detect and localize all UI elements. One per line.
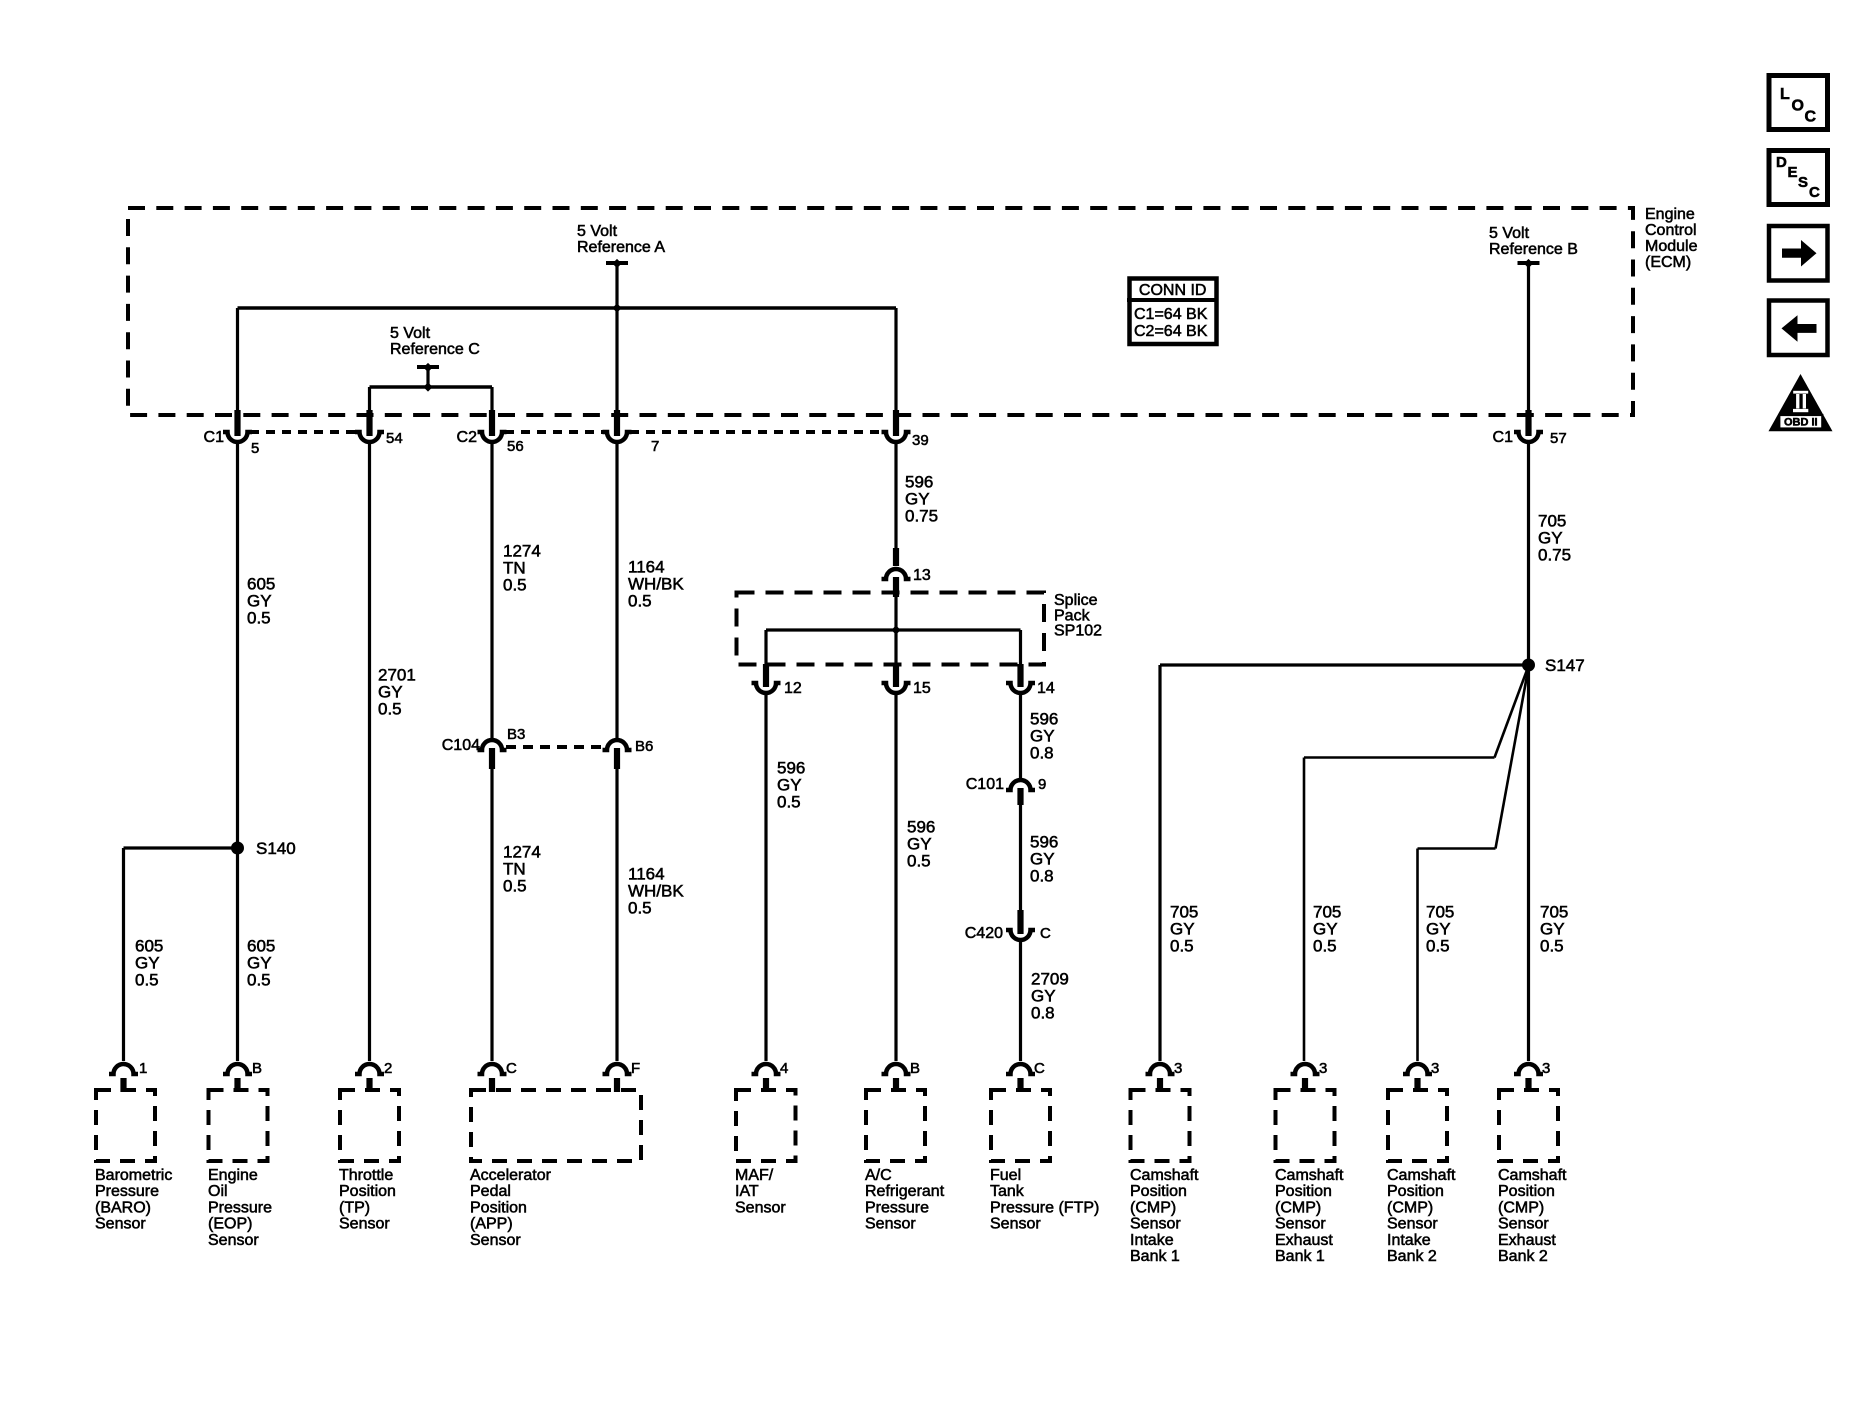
svg-text:B: B	[910, 1060, 920, 1077]
svg-text:Camshaft: Camshaft	[1498, 1167, 1567, 1184]
svg-text:0.5: 0.5	[135, 971, 159, 990]
sensor connector pin 3 at x=1417.5	[1403, 1064, 1432, 1092]
svg-text:54: 54	[386, 430, 403, 447]
wire 2701 GY from pin 54 down to TP	[368, 443, 371, 1061]
svg-text:4: 4	[780, 1060, 788, 1077]
icon DESC button	[1769, 151, 1828, 205]
svg-text:C2=64 BK: C2=64 BK	[1134, 323, 1208, 340]
svg-text:Bank 2: Bank 2	[1498, 1248, 1548, 1265]
svg-text:Pedal: Pedal	[470, 1183, 511, 1200]
svg-text:0.5: 0.5	[777, 793, 801, 812]
svg-text:0.5: 0.5	[247, 609, 271, 628]
svg-text:Engine: Engine	[208, 1167, 258, 1184]
svg-text:S: S	[1798, 174, 1808, 191]
svg-text:3: 3	[1174, 1060, 1182, 1077]
svg-text:C2: C2	[457, 429, 478, 446]
splice bus right drop	[1019, 630, 1022, 666]
svg-text:Position: Position	[339, 1183, 396, 1200]
svg-text:E: E	[1788, 164, 1798, 181]
svg-text:Tank: Tank	[990, 1183, 1025, 1200]
wire S140 branch horizontal	[124, 846, 238, 849]
svg-text:0.5: 0.5	[628, 899, 652, 918]
svg-text:Sensor: Sensor	[1387, 1216, 1438, 1233]
svg-text:0.5: 0.5	[503, 576, 527, 595]
inline connector C101 pin 9	[1006, 780, 1035, 805]
harness dotted line pins 56-7	[505, 430, 604, 434]
sensor connector pin B at x=896	[882, 1064, 911, 1092]
svg-text:B6: B6	[635, 738, 653, 755]
svg-text:Sensor: Sensor	[470, 1232, 521, 1249]
splice bus left drop	[764, 630, 767, 666]
svg-text:Intake: Intake	[1130, 1232, 1174, 1249]
svg-text:B3: B3	[507, 726, 525, 743]
sensor box Camshaft Position (CMP) Sensor Exhaust Bank 2	[1499, 1090, 1558, 1161]
wire bus-A left drop to pin 5	[236, 308, 239, 413]
svg-text:Sensor: Sensor	[95, 1216, 146, 1233]
sensor box Camshaft Position (CMP) Sensor Intake Bank 2	[1388, 1090, 1447, 1161]
svg-text:Exhaust: Exhaust	[1498, 1232, 1556, 1249]
ECM dashed enclosure box	[128, 208, 1633, 415]
svg-text:F: F	[631, 1060, 640, 1077]
svg-text:Pressure: Pressure	[95, 1183, 159, 1200]
svg-text:Position: Position	[1275, 1183, 1332, 1200]
svg-text:0.8: 0.8	[1030, 744, 1054, 763]
svg-text:C: C	[506, 1060, 517, 1077]
sensor connector pin 4 at x=766	[752, 1064, 781, 1092]
junction at splice bus	[891, 625, 900, 634]
svg-text:Reference C: Reference C	[390, 341, 480, 358]
svg-text:3: 3	[1431, 1060, 1439, 1077]
svg-text:C1: C1	[204, 429, 225, 446]
5V reference A supply symbol	[606, 259, 628, 268]
sensor box Camshaft Position (CMP) Sensor Intake Bank 1	[1131, 1090, 1190, 1161]
harness dotted line pins 5-54	[250, 430, 357, 434]
wire bus-C left drop to pin 54	[368, 387, 371, 413]
wire 1274 TN from pin 56 to C104	[490, 443, 493, 738]
svg-text:IAT: IAT	[735, 1183, 759, 1200]
ECM connector pin 56	[478, 410, 507, 442]
svg-text:A/C: A/C	[865, 1167, 892, 1184]
ECM connector pin 5	[223, 410, 252, 442]
svg-text:(BARO): (BARO)	[95, 1199, 151, 1216]
svg-text:Control: Control	[1645, 222, 1697, 239]
svg-text:0.5: 0.5	[1170, 937, 1194, 956]
wire 596 GY from pin 39 to splice pack	[894, 443, 897, 549]
sensor box A C Refrigerant Pressure Sensor	[866, 1090, 925, 1161]
svg-text:SP102: SP102	[1054, 623, 1102, 640]
svg-text:12: 12	[784, 680, 802, 697]
wire 705 GY from pin 57 down to CMP exhaust bank 2	[1527, 443, 1530, 1061]
svg-text:Reference B: Reference B	[1489, 241, 1578, 258]
svg-text:(CMP): (CMP)	[1498, 1199, 1544, 1216]
svg-text:OBD II: OBD II	[1784, 417, 1818, 429]
wire S147 branch to CMP intake bank 1	[1160, 663, 1529, 666]
svg-text:CONN ID: CONN ID	[1139, 282, 1207, 299]
wire 596 GY pin14 to C101	[1019, 694, 1022, 778]
svg-text:0.5: 0.5	[1426, 937, 1450, 956]
sensor box Fuel Tank Pressure (FTP) Sensor	[991, 1090, 1050, 1161]
svg-text:Sensor: Sensor	[339, 1216, 390, 1233]
wire 596 GY C101 to C420	[1019, 805, 1022, 910]
svg-text:1: 1	[139, 1060, 147, 1077]
svg-text:0.5: 0.5	[1313, 937, 1337, 956]
sensor connector pin 3 at x=1305	[1291, 1064, 1320, 1092]
svg-text:Bank 1: Bank 1	[1130, 1248, 1180, 1265]
wire pin13 into splice bus	[894, 597, 897, 630]
svg-text:Accelerator: Accelerator	[470, 1167, 552, 1184]
svg-text:Pressure (FTP): Pressure (FTP)	[990, 1199, 1099, 1216]
svg-text:0.75: 0.75	[905, 507, 938, 526]
ECM connector pin 57	[1514, 410, 1543, 442]
svg-text:Sensor: Sensor	[865, 1216, 916, 1233]
svg-text:39: 39	[912, 432, 929, 449]
icon OBD II symbol	[1769, 374, 1833, 431]
svg-text:0.8: 0.8	[1031, 1004, 1055, 1023]
sensor connector pin 2 at x=369.5	[355, 1064, 384, 1092]
svg-text:Sensor: Sensor	[735, 1199, 786, 1216]
svg-text:L: L	[1780, 86, 1790, 103]
5V reference B supply symbol	[1518, 259, 1540, 268]
splice pack connector pin 15	[882, 664, 911, 693]
sensor connector pin 3 at x=1528.5	[1514, 1064, 1543, 1092]
splice bus horizontal	[766, 628, 1021, 631]
svg-text:C: C	[1034, 1060, 1045, 1077]
svg-text:Refrigerant: Refrigerant	[865, 1183, 945, 1200]
wire 5V-B vertical	[1527, 263, 1530, 413]
ECM connector pin 54	[355, 410, 384, 442]
svg-text:C: C	[1040, 925, 1051, 942]
svg-text:Reference A: Reference A	[577, 239, 665, 256]
svg-text:B: B	[252, 1060, 262, 1077]
svg-text:C: C	[1805, 109, 1817, 126]
svg-text:Camshaft: Camshaft	[1275, 1167, 1344, 1184]
sensor connector pin B at x=237.5	[223, 1064, 252, 1092]
svg-text:(CMP): (CMP)	[1387, 1199, 1433, 1216]
splice pack SP102 dashed box	[737, 593, 1045, 665]
svg-text:0.5: 0.5	[1540, 937, 1564, 956]
svg-text:Sensor: Sensor	[1130, 1216, 1181, 1233]
svg-text:Pressure: Pressure	[865, 1199, 929, 1216]
svg-text:S147: S147	[1545, 656, 1585, 675]
svg-text:14: 14	[1037, 680, 1055, 697]
svg-text:0.8: 0.8	[1030, 867, 1054, 886]
sensor box MAF IAT Sensor	[736, 1090, 796, 1161]
svg-text:3: 3	[1542, 1060, 1550, 1077]
svg-text:Intake: Intake	[1387, 1232, 1431, 1249]
ECM connector pin 39	[882, 410, 911, 442]
svg-text:5 Volt: 5 Volt	[577, 223, 618, 240]
5V reference C supply symbol	[417, 363, 439, 372]
svg-text:2: 2	[384, 1060, 392, 1077]
inline connector pin B6	[603, 740, 632, 769]
wire 605 GY down to BARO	[122, 848, 125, 1061]
svg-text:C1=64 BK: C1=64 BK	[1134, 306, 1208, 323]
svg-text:Sensor: Sensor	[208, 1232, 259, 1249]
sensor connector pin 3 at x=1160	[1146, 1064, 1175, 1092]
svg-text:0.5: 0.5	[503, 877, 527, 896]
svg-text:0.5: 0.5	[247, 971, 271, 990]
svg-text:Sensor: Sensor	[1498, 1216, 1549, 1233]
svg-text:Throttle: Throttle	[339, 1167, 393, 1184]
svg-text:Module: Module	[1645, 238, 1698, 255]
svg-text:13: 13	[913, 567, 931, 584]
wire 15 drop	[894, 630, 897, 666]
sensor box Throttle Position (TP) Sensor	[340, 1090, 399, 1161]
wire 1164 WH/BK from pin 7 to B6	[615, 443, 618, 738]
wire 605 GY from pin 5 down to EOP	[236, 443, 239, 1061]
svg-text:Position: Position	[1498, 1183, 1555, 1200]
harness dashed line B3-B6	[506, 745, 603, 749]
svg-text:Sensor: Sensor	[1275, 1216, 1326, 1233]
splice S140	[231, 842, 244, 855]
svg-text:7: 7	[651, 438, 659, 455]
svg-text:Position: Position	[470, 1199, 527, 1216]
svg-text:Oil: Oil	[208, 1183, 228, 1200]
5V-A bus horizontal	[238, 306, 897, 309]
junction 5V-A at bus	[612, 303, 621, 312]
wire 596 GY to A/C sensor	[894, 694, 897, 1061]
svg-text:C104: C104	[442, 737, 480, 754]
svg-text:0.5: 0.5	[628, 592, 652, 611]
5V-C bus horizontal	[370, 385, 493, 388]
svg-text:(APP): (APP)	[470, 1216, 513, 1233]
splice S147	[1522, 659, 1535, 672]
wire 5V-A vertical	[615, 263, 618, 413]
wire 1164 WH/BK from B6 down to APP F	[615, 769, 618, 1061]
svg-text:Camshaft: Camshaft	[1387, 1167, 1456, 1184]
svg-text:(EOP): (EOP)	[208, 1216, 252, 1233]
svg-text:Fuel: Fuel	[990, 1167, 1021, 1184]
svg-text:0.5: 0.5	[378, 700, 402, 719]
svg-text:Bank 1: Bank 1	[1275, 1248, 1325, 1265]
icon LOC button	[1769, 76, 1828, 130]
inline connector C420 pin C	[1006, 910, 1035, 940]
wire 5V-C vertical	[426, 367, 429, 387]
svg-text:C: C	[1809, 184, 1820, 201]
sensor connector pin C at x=1020.5	[1006, 1064, 1035, 1092]
wire bus-C right drop to pin 56	[490, 387, 493, 413]
svg-text:0.75: 0.75	[1538, 546, 1571, 565]
svg-text:15: 15	[913, 680, 931, 697]
wire S147 diagonal branch to CMP exhaust bank 1	[1495, 670, 1528, 758]
sensor connector pin 1 at x=123.5	[109, 1064, 138, 1092]
svg-text:(ECM): (ECM)	[1645, 254, 1691, 271]
svg-text:Sensor: Sensor	[990, 1216, 1041, 1233]
junction 5V-C at bus	[423, 382, 432, 391]
ECM connector pin 7	[603, 410, 632, 442]
svg-text:Position: Position	[1130, 1183, 1187, 1200]
svg-text:Bank 2: Bank 2	[1387, 1248, 1437, 1265]
svg-text:C420: C420	[965, 925, 1003, 942]
icon prev-page arrow button	[1769, 301, 1828, 356]
svg-text:3: 3	[1319, 1060, 1327, 1077]
svg-text:57: 57	[1550, 430, 1567, 447]
svg-text:9: 9	[1038, 776, 1046, 793]
svg-text:(CMP): (CMP)	[1130, 1199, 1176, 1216]
svg-text:Camshaft: Camshaft	[1130, 1167, 1199, 1184]
svg-text:5: 5	[251, 440, 259, 457]
svg-text:Barometric: Barometric	[95, 1167, 172, 1184]
svg-text:C101: C101	[966, 776, 1004, 793]
svg-text:Engine: Engine	[1645, 206, 1695, 223]
svg-text:C1: C1	[1493, 429, 1514, 446]
svg-text:Exhaust: Exhaust	[1275, 1232, 1333, 1249]
wire 596 GY to MAF/IAT	[764, 694, 767, 1061]
svg-text:5 Volt: 5 Volt	[390, 325, 431, 342]
svg-text:Position: Position	[1387, 1183, 1444, 1200]
svg-text:56: 56	[507, 438, 524, 455]
splice-pack connector pin 13	[882, 548, 911, 597]
svg-text:D: D	[1776, 154, 1787, 171]
wire 1274 TN from C104 down to APP C	[490, 769, 493, 1061]
sensor connector pin F at x=617	[603, 1064, 632, 1092]
icon next-page arrow button	[1769, 226, 1828, 281]
svg-text:O: O	[1792, 98, 1804, 115]
sensor box Barometric Pressure (BARO) Sensor	[96, 1090, 155, 1161]
harness dotted line pins 7-39	[630, 430, 883, 434]
wire bus-A right drop to pin 39	[894, 308, 897, 413]
svg-text:(TP): (TP)	[339, 1199, 370, 1216]
sensor connector pin C at x=492	[478, 1064, 507, 1092]
sensor box Camshaft Position (CMP) Sensor Exhaust Bank 1	[1276, 1090, 1335, 1161]
splice pack connector pin 12	[752, 664, 781, 693]
CONN ID table	[1127, 279, 1219, 345]
sensor box Engine Oil Pressure (EOP) Sensor	[209, 1090, 268, 1161]
inline connector C104 pin B3	[478, 740, 507, 769]
wire S147 diagonal branch to CMP intake bank 2	[1496, 670, 1529, 849]
svg-text:(CMP): (CMP)	[1275, 1199, 1321, 1216]
svg-text:Pressure: Pressure	[208, 1199, 272, 1216]
sensor box Accelerator Pedal Position (APP) Sensor	[471, 1090, 641, 1161]
svg-text:MAF/: MAF/	[735, 1167, 774, 1184]
splice pack connector pin 14	[1006, 664, 1035, 693]
svg-text:0.5: 0.5	[907, 852, 931, 871]
svg-text:S140: S140	[256, 839, 296, 858]
wire 2709 GY to FTP sensor	[1019, 941, 1022, 1061]
svg-text:5 Volt: 5 Volt	[1489, 225, 1530, 242]
